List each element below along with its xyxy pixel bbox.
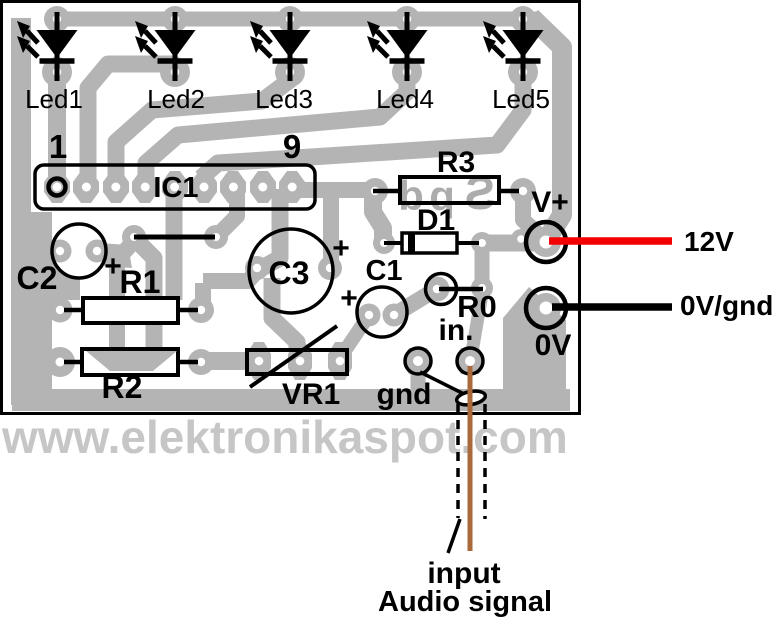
wire: gnd pad down to ground strip: [411, 361, 426, 395]
board outline: [2, 2, 580, 414]
wire: gray lobe below C2 left: [52, 255, 80, 300]
node: D1 pads: [373, 232, 395, 254]
wire: LED3 cathode to IC pin3: [116, 72, 290, 182]
node: input octagon pad: [456, 348, 484, 374]
op-amp U1: IC1 outline: [35, 165, 315, 209]
potentiometer VR1 body fill: [247, 350, 347, 374]
svg-text:1: 1: [49, 128, 67, 165]
LED D4: Led4 symbol: [367, 12, 428, 81]
wire: R3 leads: [373, 189, 400, 194]
svg-text:V+: V+: [531, 186, 569, 219]
wire: LED2 cathode to IC pin2: [88, 64, 173, 182]
wire: gray trapezoid inside R2: [86, 351, 177, 371]
node: gnd octagon pad: [404, 348, 432, 374]
wire: down to C3 right pad: [323, 190, 339, 268]
wire: cable shield dashed left: [456, 404, 460, 518]
diode D1 body: [402, 233, 457, 253]
svg-text:9: 9: [283, 128, 301, 165]
svg-text:Led4: Led4: [376, 84, 434, 114]
svg-text:gnd: gnd: [377, 378, 432, 411]
node: jumper pads: [122, 225, 146, 249]
resistor R0 body outline: [426, 274, 457, 305]
wire: C2 right pad to jumper left pad: [96, 253, 118, 266]
wire: gray patch right of C2: [100, 243, 132, 268]
watermark mirrored Spd: [398, 167, 495, 219]
wire: V+ top anode rail to V+ pad: [48, 12, 538, 27]
node: IC1 octagonal pads pins 1-9: [44, 171, 305, 203]
wire: C1 right pad to R0 body pad: [394, 290, 435, 315]
wire: bottom right ground plane: [503, 287, 566, 410]
wire: jumper right pad up to IC pin7: [216, 189, 237, 237]
node: 0V pad: [531, 293, 561, 323]
terminal V+ ring: [526, 222, 566, 262]
LED D5: Led5 symbol: [483, 12, 544, 81]
wire: IC pin8 down into C3 left pad: [262, 189, 280, 268]
wire: D1 leads: [384, 241, 402, 245]
node: IC1 pad holes: [53, 183, 297, 192]
wire: V+ rail right vertical: [531, 17, 562, 236]
node: C1 pads: [358, 304, 381, 327]
svg-text:Led3: Led3: [255, 84, 313, 114]
wire: R2 leads: [64, 360, 82, 365]
diode D1 cathode band: [408, 233, 415, 253]
node: pad left of V+: [511, 229, 531, 249]
svg-text:0V: 0V: [535, 329, 572, 362]
node: V+ pad: [531, 227, 561, 257]
capacitor C2 body fill: [53, 225, 105, 277]
wire: jumper left pad down to R2 via vertical A: [117, 242, 133, 352]
wire: cable shield dashed right: [483, 404, 487, 519]
svg-text:R1: R1: [120, 264, 161, 300]
svg-text:0V/gnd: 0V/gnd: [680, 290, 773, 321]
svg-text:+: +: [340, 282, 358, 315]
resistor R3 body outline: [400, 177, 499, 203]
svg-text:12V: 12V: [684, 226, 734, 257]
wire: stub to R2 left pad: [30, 354, 60, 371]
wire: jumper link C2-C3: [134, 235, 215, 240]
svg-text:C1: C1: [365, 255, 402, 287]
svg-text:in.: in.: [439, 314, 474, 347]
wire: stub to R1 left pad: [30, 302, 60, 319]
svg-text:+: +: [332, 232, 350, 265]
wire: D1 right pad down to R0 pad: [475, 243, 490, 288]
svg-text:IC1: IC1: [153, 172, 198, 204]
node: C2 pads: [49, 240, 72, 263]
node: input pad ring: [457, 348, 483, 374]
wire: black 0V wire: [552, 303, 672, 311]
svg-text:www.elektronikaspot.com: www.elektronikaspot.com: [1, 411, 568, 463]
svg-text:Led1: Led1: [25, 84, 83, 114]
wire: cable end sleeve: [456, 389, 487, 407]
potentiometer VR1 adjust line: [250, 326, 337, 387]
LED D1: Led1 symbol: [17, 12, 78, 81]
LED D3: Led3 symbol: [250, 12, 311, 81]
node: IC1 pin1 ring: [49, 179, 66, 196]
wire: LED4 cathode to IC pin4: [146, 72, 407, 182]
node: R0 body pad: [425, 277, 450, 302]
node: VR1 octagon pads: [247, 342, 352, 380]
resistor R2 body: [82, 349, 178, 375]
node: LED bottom pads: [42, 57, 538, 87]
svg-text:Led2: Led2: [147, 84, 205, 114]
wire: gnd wire to cable shield: [420, 372, 464, 394]
terminal 0V ring: [526, 288, 566, 328]
capacitor C3 outline: [249, 229, 333, 313]
wire: C3 left pad down to VR1 left pad: [272, 278, 297, 356]
svg-text:R3: R3: [437, 146, 475, 179]
wire: R0 pad down to input pad: [472, 294, 482, 352]
node: LED top pad holes: [53, 15, 527, 23]
node: gnd pad ring: [405, 348, 431, 374]
node: R2 pads: [45, 347, 75, 377]
wire: IC pin9 to R3 left pad: [292, 182, 373, 198]
svg-text:Led5: Led5: [492, 84, 550, 114]
capacitor C2 outline: [52, 224, 106, 278]
svg-text:C3: C3: [269, 255, 310, 291]
wire: LED5 cathode to IC pin5: [201, 72, 523, 178]
wire: red 12V wire: [549, 237, 672, 245]
node: R1 pads: [48, 298, 73, 323]
node: LED top pads on rail: [44, 6, 536, 32]
svg-text:Audio signal: Audio signal: [378, 586, 552, 618]
wire: R0 lead: [439, 287, 483, 292]
wire: R2 right pad to VR1 left pad: [201, 352, 257, 370]
capacitor C1 outline: [357, 287, 407, 337]
potentiometer VR1 outline: [247, 350, 347, 374]
svg-text:C2: C2: [17, 260, 58, 296]
wire: bottom ground strip: [12, 389, 570, 411]
wire: IC pin5 down to R1: [166, 189, 183, 300]
wire: R3 right pad down to V+ pad: [523, 193, 542, 238]
node: C3 pads: [245, 256, 269, 280]
wire: R1 leads: [64, 308, 83, 313]
resistor R3 body fill: [400, 177, 499, 203]
node: R3 pads: [362, 178, 388, 204]
wire: R3 left pad down to D1 left pad: [373, 193, 383, 243]
svg-text:D1: D1: [417, 204, 455, 237]
resistor R1 body: [83, 298, 178, 323]
svg-text:R2: R2: [102, 369, 143, 405]
wire: brown audio core wire: [468, 366, 473, 551]
wire: slash mark: [448, 519, 460, 553]
wire: ground plane left field: [11, 212, 52, 405]
wire: C1 left pad to VR1 right pad: [340, 315, 369, 358]
LED D2: Led2 symbol: [135, 12, 196, 81]
node: R0 second pad: [471, 277, 493, 299]
wire: left ground bar: [11, 18, 31, 400]
wire: LED1 cathode to IC pin1: [48, 70, 66, 187]
svg-text:VR1: VR1: [282, 378, 340, 411]
node: LED bottom pad holes: [53, 68, 527, 76]
wire: D1 right pad to V+ pad: [482, 235, 540, 252]
wire: jumper pad down to R2 via vertical B: [136, 240, 154, 352]
wire: R1 right pad up and to C3 left pad: [203, 270, 258, 310]
